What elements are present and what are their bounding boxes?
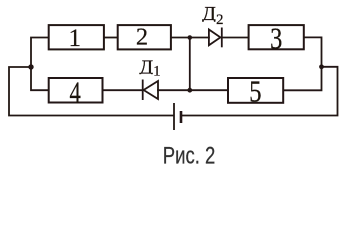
svg-text:Рис. 2: Рис. 2 [163,143,216,170]
svg-text:4: 4 [69,75,81,109]
svg-text:5: 5 [249,75,261,109]
svg-text:1: 1 [69,25,82,52]
svg-text:3: 3 [270,21,282,55]
svg-text:2: 2 [136,23,148,50]
